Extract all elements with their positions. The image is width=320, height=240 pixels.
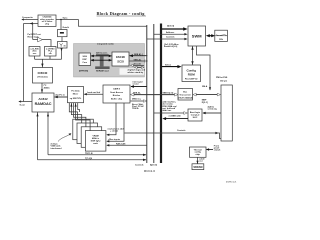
svg-text:Dotclk: Dotclk xyxy=(63,26,70,29)
svg-text:each: each xyxy=(93,143,98,145)
svg-text:interleaved: interleaved xyxy=(51,147,63,150)
wire: SEB address bus to CPU bus xyxy=(129,53,147,57)
wire: thick video arrow to BVM xyxy=(162,26,188,31)
wire: sync out right of box A xyxy=(56,17,147,26)
svg-text:arbiter stand-by: arbiter stand-by xyxy=(128,71,145,74)
svg-text:chip: chip xyxy=(45,24,50,26)
svg-text:AC842: AC842 xyxy=(38,97,48,101)
wire: boot hollow arrow from V2 xyxy=(154,112,188,115)
tall connector box 192 pin xyxy=(221,85,232,141)
svg-text:SM-A: SM-A xyxy=(202,85,208,88)
svg-text:T[7:0]S: T[7:0]S xyxy=(85,158,93,160)
wire: RAMDAC analog out left xyxy=(18,100,32,106)
label: bus signal list right of V3 xyxy=(163,101,178,112)
svg-text:(ThinkJet): (ThinkJet) xyxy=(38,76,48,79)
svg-text:addr bus: addr bus xyxy=(163,109,173,112)
svg-text:SGS: SGS xyxy=(83,56,88,58)
svg-text:SEB-AL: SEB-AL xyxy=(133,91,141,94)
label: burst wait pixel xyxy=(132,103,144,110)
config ROM box xyxy=(182,65,201,82)
wire: mux inputs from OAIR down to stack xyxy=(106,103,124,143)
wire: RAMDAC pixel clock in right xyxy=(54,93,67,98)
svg-text:Transceiver: Transceiver xyxy=(179,94,191,97)
svg-text:S-out: S-out xyxy=(20,103,26,106)
wire: MBP data arrow to connector xyxy=(193,93,221,104)
wire: back-end buf arrow xyxy=(84,92,103,95)
wire: SEB data fat double arrow across buses xyxy=(130,91,178,96)
svg-text:DMA req: DMA req xyxy=(132,97,141,100)
svg-text:Buffer chip: Buffer chip xyxy=(111,97,123,100)
wire: RAS CAS from V1 to stack xyxy=(106,143,147,147)
wire: interrupts arrow into OAIR xyxy=(131,80,147,88)
bus transceiver box xyxy=(178,89,193,101)
svg-text:4Mbit x: 4Mbit x xyxy=(92,137,100,140)
box B: xtal xyxy=(58,26,70,37)
svg-text:RAS,CAS: RAS,CAS xyxy=(116,143,126,146)
wire: BVM to monitor double arrow xyxy=(206,34,215,37)
buffer triangle xyxy=(38,37,43,42)
svg-text:switch: switch xyxy=(214,149,221,152)
SCSI box xyxy=(112,52,129,66)
VRAM stack (4 offset chips) xyxy=(73,119,106,151)
title: Block Diagram xyxy=(97,11,147,16)
wire: SEB AL to bus xyxy=(130,58,148,62)
svg-text:extSEB addr: extSEB addr xyxy=(169,114,182,117)
DSP box xyxy=(79,53,91,73)
BVM box xyxy=(188,26,206,46)
wire: collector down into box F xyxy=(41,59,43,67)
svg-text:D[3:1]: D[3:1] xyxy=(202,102,208,104)
box D: clock gen xyxy=(29,47,40,57)
svg-text:back-end buf: back-end buf xyxy=(87,92,100,94)
svg-text:400kb: 400kb xyxy=(44,86,51,89)
svg-text:TDM A: TDM A xyxy=(132,107,139,110)
box E: clock gen 2 xyxy=(45,47,57,57)
wire: decode arrow into SCSI xyxy=(130,64,144,67)
monitor connector box RGB xyxy=(215,30,228,41)
wire: down to box B xyxy=(60,20,62,31)
svg-text:SCSI: SCSI xyxy=(117,60,124,64)
wire: RAMDAC serial data from below (two risers) xyxy=(36,112,49,160)
label: PMOut FSS 192 pin xyxy=(216,76,228,83)
box F: IC6040 xyxy=(33,68,53,84)
SDRAM small box xyxy=(192,164,204,170)
box C: divider xyxy=(58,42,68,49)
svg-text:ESC90: ESC90 xyxy=(116,55,125,59)
svg-text:ROM: ROM xyxy=(188,72,196,76)
svg-text:RAMDAC: RAMDAC xyxy=(35,102,52,106)
Pix Data Mixer box xyxy=(68,87,84,103)
svg-text:SLIC: SLIC xyxy=(193,117,198,119)
svg-text:PLCC/DIP 32: PLCC/DIP 32 xyxy=(185,79,198,81)
svg-text:SWM: SWM xyxy=(192,34,202,39)
svg-text:IC6040: IC6040 xyxy=(38,71,48,75)
svg-text:integrated media: integrated media xyxy=(97,43,114,46)
wire: BVM down to config ROM xyxy=(191,46,193,65)
wire: controls arrow to BVM xyxy=(147,36,188,49)
CPU bus vertical V3 (thick) xyxy=(160,24,162,164)
svg-text:VRAM: VRAM xyxy=(93,134,99,137)
svg-text:Pix Data: Pix Data xyxy=(71,89,80,92)
svg-text:D[31:0]: D[31:0] xyxy=(167,26,174,28)
svg-text:4/5/95 rev1: 4/5/95 rev1 xyxy=(226,180,237,183)
svg-text:OAIR II: OAIR II xyxy=(113,88,120,91)
svg-text:AuxPix in: AuxPix in xyxy=(55,93,65,96)
shaded region: integrated multimedia module xyxy=(74,43,145,77)
svg-text:DSP: DSP xyxy=(83,59,88,61)
labels at bus bottoms xyxy=(135,163,157,173)
svg-text:Block Diagram - config: Block Diagram - config xyxy=(97,11,146,16)
wire: D and E down to collector bus xyxy=(35,56,62,59)
svg-text:(EPROM): (EPROM) xyxy=(79,71,88,73)
CPU bus vertical V1 xyxy=(146,25,148,163)
svg-text:Controls: Controls xyxy=(135,163,144,166)
svg-text:RGt: RGt xyxy=(219,38,223,41)
svg-text:out: out xyxy=(199,160,203,163)
wire: F down to RAMDAC xyxy=(41,83,50,93)
wire: s-video out, corner down left side xyxy=(24,22,39,101)
svg-text:+Mux inputs: +Mux inputs xyxy=(108,138,121,141)
wire: DMA req arrow xyxy=(131,97,147,102)
svg-text:Composite: Composite xyxy=(22,16,34,19)
svg-text:PMOut FSS: PMOut FSS xyxy=(216,76,228,79)
boot logic box xyxy=(188,109,202,121)
svg-text:SDRAM: SDRAM xyxy=(193,166,202,169)
wire: branch down to buffer xyxy=(32,24,34,40)
wire: long serial bus lines to CPU buses xyxy=(38,153,147,161)
wire: arrow from connector into boot logic xyxy=(202,105,220,114)
svg-text:Address: Address xyxy=(166,31,175,34)
svg-text:serial cfg: serial cfg xyxy=(208,107,218,110)
svg-text:Core: Core xyxy=(82,61,88,64)
svg-text:Bitslice: Bitslice xyxy=(113,94,121,97)
wire: ext SEB addr arrow to V3 xyxy=(162,114,188,120)
wire: B to C xyxy=(61,37,63,42)
wire: row/column addr from OAIR down to stack xyxy=(106,103,124,136)
svg-text:A[31:0]: A[31:0] xyxy=(150,163,157,166)
svg-text:+ strobe: + strobe xyxy=(110,130,119,133)
svg-text:Controls: Controls xyxy=(166,36,175,39)
svg-text:Enable A[1:0]: Enable A[1:0] xyxy=(164,45,178,48)
wire: arbiter double arrow xyxy=(134,66,144,68)
wire: buffer in/out to box E xyxy=(33,40,51,47)
svg-text:Omni Access: Omni Access xyxy=(110,91,124,94)
svg-text:RCC1.0: RCC1.0 xyxy=(144,169,155,173)
svg-text:Select: Select xyxy=(165,63,171,66)
SRAM pedestal (I-beam) xyxy=(95,54,109,72)
box G: RAMDAC xyxy=(32,93,54,112)
CPU bus vertical V2 xyxy=(153,24,155,163)
wire: arrow into front panel box xyxy=(206,145,221,152)
wire: address arrow to BVM xyxy=(154,31,188,36)
wire: thick ROM select arrow xyxy=(162,63,182,68)
svg-text:192 pin: 192 pin xyxy=(220,81,228,83)
svg-text:Mixer: Mixer xyxy=(73,92,79,95)
svg-text:Controls: Controls xyxy=(177,129,186,132)
svg-text:TRC1.B: TRC1.B xyxy=(85,153,93,155)
svg-text:Sync: Sync xyxy=(63,17,69,19)
box A: video encoder xyxy=(38,15,56,26)
svg-text:chip: chip xyxy=(196,154,201,156)
wire: down to SDRAM box xyxy=(196,157,205,164)
svg-text:eg 8307STL: eg 8307STL xyxy=(70,98,82,100)
svg-text:vector: vector xyxy=(133,83,139,86)
svg-text:SDRAM mod: SDRAM mod xyxy=(96,70,109,73)
OAIR buffer chip box xyxy=(103,85,130,103)
legend note with squiggle arrow xyxy=(51,133,72,150)
wire: controls line to connector xyxy=(125,129,222,138)
label: DPDT note xyxy=(28,33,41,38)
wire: composite out arrow xyxy=(21,16,38,20)
wire: BVM down right to transceiver column xyxy=(197,46,212,91)
wires: pixel risers staircase from mixer down to VRAM stack xyxy=(69,103,90,131)
label: deglitch note under shaded region xyxy=(128,69,146,74)
svg-text:Boot logic: Boot logic xyxy=(190,111,201,114)
wire: C down to collector xyxy=(60,48,62,59)
front panel box bottom right xyxy=(190,147,207,157)
svg-text:A/D busses: A/D busses xyxy=(96,52,108,55)
wire: DSP-SCSI bus arrows xyxy=(91,52,112,62)
svg-text:(74LVC16245A): (74LVC16245A) xyxy=(178,96,193,99)
